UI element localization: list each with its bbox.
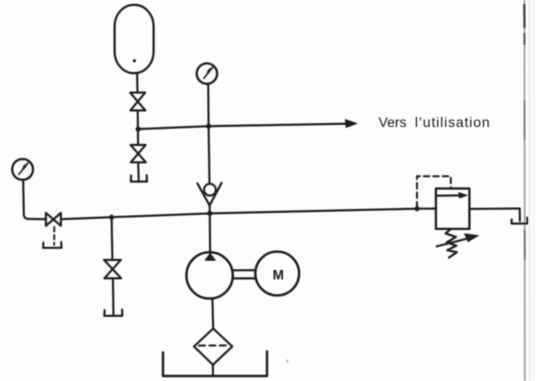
svg-text:M: M: [273, 267, 284, 282]
svg-text:l’utilisation: l’utilisation: [415, 114, 491, 130]
svg-text:Vers: Vers: [379, 114, 407, 130]
